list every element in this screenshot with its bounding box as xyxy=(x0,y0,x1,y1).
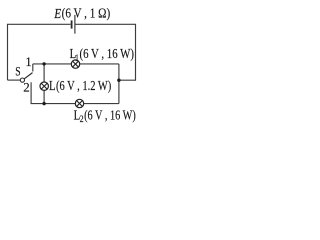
wire node N branch xyxy=(119,79,136,81)
wire switch pole lead xyxy=(8,79,21,81)
svg-text:E: E xyxy=(53,7,61,22)
node A junction dot xyxy=(42,62,45,65)
svg-text:1: 1 xyxy=(25,55,31,69)
svg-text:S: S xyxy=(15,64,20,78)
svg-text:(6 V , 16 W): (6 V , 16 W) xyxy=(84,109,136,124)
svg-text:(6 V , 1.2 W): (6 V , 1.2 W) xyxy=(56,79,112,94)
wire inner right vertical xyxy=(118,64,120,104)
node N junction dot xyxy=(117,79,120,82)
node B junction dot xyxy=(42,102,45,105)
wire L1 row xyxy=(33,63,119,65)
wire outer right vertical xyxy=(135,24,137,81)
wire bottom row xyxy=(31,103,119,105)
battery E long plate xyxy=(74,15,76,34)
switch S pole circle xyxy=(20,78,24,82)
svg-text:2: 2 xyxy=(23,79,30,94)
label E value xyxy=(53,7,110,22)
svg-text:(6 V , 16 W): (6 V , 16 W) xyxy=(80,47,135,62)
battery E short plate xyxy=(71,20,73,28)
lamp L1 xyxy=(71,60,79,68)
wire left vertical xyxy=(7,24,9,80)
switch S blade xyxy=(24,73,32,79)
wire lamp L branch vertical xyxy=(43,64,45,104)
wire top (battery right segment) xyxy=(75,23,135,25)
label L2 value xyxy=(74,109,136,125)
label L value xyxy=(49,79,112,94)
label L1 value xyxy=(70,47,135,64)
wire contact 2 drop xyxy=(30,82,32,103)
lamp L xyxy=(40,82,48,90)
wire top (battery left segment) xyxy=(8,23,71,25)
svg-text:L: L xyxy=(49,79,56,94)
switch contact 1 tick xyxy=(32,64,34,72)
lamp L2 xyxy=(75,99,83,107)
svg-text:(6 V , 1 Ω): (6 V , 1 Ω) xyxy=(62,7,111,22)
